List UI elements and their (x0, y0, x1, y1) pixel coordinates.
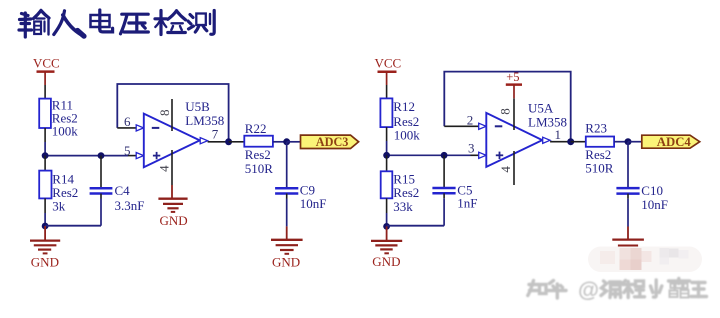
char 编 (601, 281, 621, 298)
svg-text:4: 4 (498, 166, 513, 173)
wire pin 7 to node D (208, 141, 229, 143)
svg-text:2: 2 (467, 113, 474, 128)
char 入 (54, 11, 85, 37)
svg-text:1: 1 (555, 127, 562, 142)
wire R15 to node G (386, 198, 388, 213)
svg-text:100k: 100k (52, 124, 79, 139)
port ADC4 (642, 135, 700, 149)
capacitor C10 (616, 183, 668, 226)
svg-text:+5: +5 (506, 70, 519, 84)
capacitor C4 (90, 156, 145, 226)
char 压 (121, 14, 149, 34)
char 检 (155, 11, 186, 35)
wire R12 to node F (386, 127, 388, 141)
censor mosaic blur patch (588, 247, 702, 273)
pin 6 input arrow (136, 125, 143, 131)
ground GND (C10, partly censored) (612, 227, 644, 251)
op-amp U5A (486, 98, 567, 185)
svg-text:7: 7 (212, 127, 219, 142)
node J junction (625, 138, 632, 145)
power port VCC (right) (375, 56, 402, 85)
svg-text:GND: GND (160, 213, 188, 228)
char 测 (188, 11, 214, 35)
power port VCC (left) (33, 56, 60, 85)
svg-text:@: @ (578, 278, 599, 302)
svg-text:3k: 3k (52, 198, 66, 213)
wire node F to R15 (386, 155, 388, 171)
capacitor C9 (275, 183, 326, 227)
wire pin 1 to node I (550, 141, 571, 143)
svg-text:3: 3 (468, 141, 475, 156)
char 乎 (548, 281, 566, 299)
wire R22 to node E (273, 141, 287, 143)
svg-text:5: 5 (124, 143, 131, 158)
output arrow U5A pin 1 (543, 137, 550, 143)
svg-text:3.3nF: 3.3nF (115, 198, 145, 213)
ground GND (U5B pin 4) (158, 185, 187, 228)
char 输 (19, 11, 49, 38)
node E junction (283, 138, 290, 145)
wire VCC to R12 (386, 85, 388, 98)
node G junction (383, 223, 390, 230)
wire node B to C4 bottom (45, 225, 101, 227)
resistor R22 (244, 121, 273, 176)
wire node A to R14 (44, 156, 46, 171)
wire R11 to node A (44, 128, 46, 142)
svg-text:ADC3: ADC3 (316, 135, 349, 149)
port ADC3 (301, 135, 359, 149)
node H junction (C5 tap) (441, 152, 448, 159)
wire node E to ADC3 port (287, 141, 301, 143)
node A junction (42, 152, 49, 159)
resistor R14 (39, 171, 78, 214)
svg-text:LM358: LM358 (185, 113, 224, 128)
char 王 (691, 283, 707, 297)
wire node E to C9 (286, 142, 288, 187)
node C junction (C4 tap) (98, 152, 105, 159)
wire node I to R23 (571, 141, 586, 143)
svg-text:R23: R23 (585, 120, 607, 135)
char 程 (623, 281, 645, 298)
output arrow U5B pin 7 (200, 138, 207, 144)
svg-text:R12: R12 (393, 99, 415, 114)
wire VCC to R11 (44, 85, 46, 99)
power port +5 (U5A pin 8) (506, 70, 522, 98)
svg-text:510R: 510R (585, 161, 614, 176)
svg-text:510R: 510R (245, 161, 273, 176)
wire R23 to node J (614, 141, 628, 143)
ground GND (right divider) (371, 226, 402, 269)
svg-text:33k: 33k (393, 199, 413, 214)
char 小 (651, 280, 662, 297)
node B junction (42, 223, 49, 230)
svg-text:1nF: 1nF (457, 195, 477, 210)
node I junction (output) (567, 138, 574, 145)
wire node F to op-amp pin 3 (387, 154, 471, 156)
char 电 (91, 10, 113, 32)
svg-text:VCC: VCC (375, 56, 402, 71)
svg-text:C4: C4 (115, 183, 131, 198)
wire node D to R22 (229, 141, 245, 143)
feedback wire U5A (pin2 to output node I) (444, 72, 570, 142)
ground GND (C9) (271, 226, 303, 269)
svg-text:U5B: U5B (185, 99, 210, 114)
resistor R23 (585, 120, 614, 175)
svg-text:GND: GND (372, 254, 400, 269)
op-amp U5B (144, 99, 225, 185)
svg-text:8: 8 (498, 108, 513, 115)
wire node J to C10 (627, 142, 629, 187)
svg-text:VCC: VCC (33, 56, 60, 71)
capacitor C5 (432, 155, 477, 225)
pin 2 input arrow (479, 123, 486, 129)
resistor R15 (381, 171, 420, 214)
svg-text:100k: 100k (394, 127, 421, 142)
ground GND (left divider) (30, 226, 60, 269)
wire node J to ADC4 port (628, 141, 642, 143)
svg-text:GND: GND (272, 254, 300, 269)
pin 5 input arrow (136, 153, 143, 159)
pin 3 input arrow (479, 152, 486, 158)
svg-text:Res2: Res2 (245, 147, 271, 162)
svg-text:8: 8 (157, 109, 172, 116)
node F junction (383, 152, 390, 159)
svg-text:GND: GND (31, 254, 59, 269)
char 知 (528, 281, 546, 296)
feedback wire U5B (pin6 to output node D) (117, 84, 228, 142)
resistor R12 (380, 98, 420, 142)
svg-text:ADC4: ADC4 (657, 135, 691, 149)
svg-text:Res2: Res2 (393, 185, 419, 200)
resistor R11 (39, 98, 78, 139)
pin 2 wire (444, 125, 478, 127)
title 输入电压检测 (drawn strokes) (19, 10, 214, 37)
pin 6 wire (117, 127, 136, 129)
svg-text:10nF: 10nF (300, 196, 327, 211)
wire node A to op-amp pin 5 (45, 155, 128, 157)
svg-text:U5A: U5A (528, 100, 554, 115)
wire node G to C5 bottom (387, 225, 445, 227)
svg-text:6: 6 (124, 114, 131, 129)
svg-text:10nF: 10nF (641, 197, 668, 212)
wire R14 to node B (44, 198, 46, 213)
char 霸 (669, 279, 690, 298)
svg-text:LM358: LM358 (528, 114, 567, 129)
node D junction (output) (225, 138, 232, 145)
svg-text:R22: R22 (245, 121, 267, 136)
svg-text:4: 4 (156, 165, 171, 172)
